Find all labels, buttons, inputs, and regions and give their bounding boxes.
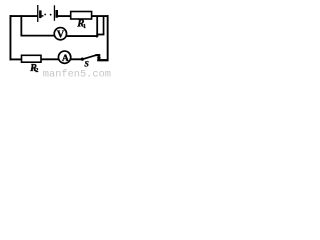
wire: bottom right of ammeter: [71, 58, 82, 60]
wire: top right segment: [92, 15, 109, 17]
resistor R2 box: [22, 55, 42, 62]
junction dot at voltmeter wire / stub corner: [96, 35, 98, 37]
battery cell 1 long plate: [37, 5, 39, 22]
battery ellipsis dot 1: [44, 14, 46, 16]
battery cell 2 short thick plate: [56, 10, 59, 18]
wire: right outer vertical: [107, 15, 109, 61]
ammeter A circle: [58, 51, 70, 63]
resistor R1 box: [71, 12, 92, 20]
battery cell 2 long plate: [53, 5, 55, 20]
wire: bottom mid segment: [41, 58, 58, 60]
hanging stub: right vertical: [103, 16, 105, 34]
switch S lever: [83, 55, 97, 59]
svg-text:2: 2: [35, 67, 38, 74]
hanging stub: left vertical: [96, 16, 98, 35]
svg-text:V: V: [57, 29, 65, 40]
svg-text:manfen5.com: manfen5.com: [43, 68, 111, 77]
switch S lever thick tip: [95, 54, 100, 56]
svg-text:1: 1: [83, 24, 86, 30]
wire: left outer vertical: [9, 15, 11, 60]
battery stub wire: [42, 15, 44, 17]
svg-text:S: S: [84, 60, 89, 69]
wire: voltmeter row right: [67, 35, 99, 37]
hanging stub: bottom connector: [96, 34, 104, 36]
wire: bottom right segment: [97, 59, 108, 61]
voltmeter V circle: [54, 28, 66, 40]
switch S right contact dot: [97, 56, 100, 59]
wire: bottom left corner segment: [10, 58, 22, 60]
voltmeter branch vertical: [20, 15, 22, 36]
svg-text:A: A: [62, 53, 69, 64]
battery ellipsis dot 2: [50, 14, 52, 16]
wire: top left segment: [10, 15, 38, 17]
battery cell 1 short thick plate: [39, 10, 42, 18]
wire: top mid segment: [58, 15, 71, 17]
wire: voltmeter row left: [21, 35, 55, 37]
switch S left contact dot: [81, 58, 84, 61]
